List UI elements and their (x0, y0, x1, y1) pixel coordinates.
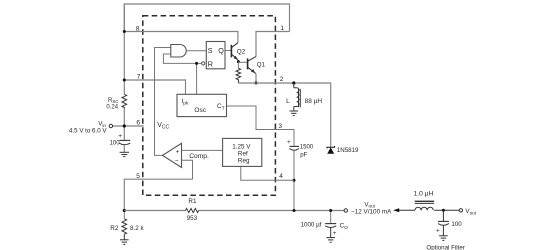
ground under R2 (120, 240, 129, 245)
wire: comparator - input down to pin 5 (182, 160, 193, 179)
wire: pin 5 feedback out to divider (124, 179, 192, 210)
ground under input cap (120, 152, 129, 156)
svg-text:88 µH: 88 µH (305, 98, 323, 105)
wire: Q1 emitter down to pin 2 line (255, 74, 257, 83)
svg-text:R1: R1 (188, 198, 197, 205)
svg-text:1: 1 (280, 25, 284, 32)
svg-text:1N5819: 1N5819 (337, 147, 359, 154)
svg-text:+: + (287, 139, 291, 146)
reference regulator box 1.25V (223, 138, 262, 166)
svg-text:1000 µf: 1000 µf (301, 221, 322, 228)
capacitor 100 uF input (119, 139, 130, 141)
wire: Q2 emitter to Q1 base (238, 61, 247, 63)
capacitor 1500 pF (289, 145, 299, 147)
node: Q2 emitter / Q1 base junction (237, 60, 240, 63)
svg-text:Reg: Reg (238, 157, 250, 164)
wire: oscillator to AND gate lower input and latch R (163, 54, 201, 63)
svg-text:953: 953 (187, 215, 198, 222)
diode 1N5819 (327, 147, 334, 153)
node: pin 4 junction (293, 179, 296, 182)
wire: AND output to latch S (186, 50, 206, 52)
latch R inverter bubble (202, 62, 205, 65)
node: junction pin8/left rail (123, 30, 126, 33)
wire: bottom rail right of R1 to output terminal (199, 210, 344, 212)
svg-text:Q: Q (218, 46, 224, 55)
resistor (Q2 emitter to pin 2) (237, 62, 239, 68)
svg-text:8: 8 (136, 25, 140, 32)
svg-text:+: + (333, 230, 337, 237)
ground under L (290, 111, 299, 116)
svg-text:−: − (175, 158, 179, 165)
svg-text:L: L (286, 98, 290, 105)
latch S-R (206, 42, 225, 69)
svg-text:+: + (176, 149, 180, 155)
svg-text:2: 2 (280, 76, 284, 83)
svg-text:S: S (208, 46, 213, 55)
node: junction pin7/left rail (123, 79, 126, 82)
resistor Rsc (122, 94, 127, 108)
svg-text:+: + (118, 133, 122, 140)
wire: cap down to pin 4 node and ground rail (293, 151, 295, 211)
svg-text:Ref: Ref (238, 150, 248, 157)
wire: pin 8 from left rail into IC to Q2 collector (124, 32, 238, 43)
comparator (163, 143, 182, 167)
wire: filter output arrow pointing to -12V terminal (398, 209, 416, 211)
capacitor CO 1000 uF (330, 212, 332, 224)
svg-text:Q2: Q2 (237, 48, 246, 55)
svg-text:−12 V/100 mA: −12 V/100 mA (351, 209, 392, 216)
svg-text:Q1: Q1 (257, 61, 266, 68)
wire: ref reg to comparator + input (182, 149, 223, 151)
IC boundary dashed box (143, 16, 276, 196)
svg-text:+: + (436, 227, 440, 234)
oscillator box (Ipk / Osc / CT) (177, 94, 227, 116)
transistor Q1 (248, 57, 256, 74)
wire: pin 3 (CT) from osc box out to timing cap (227, 106, 295, 146)
svg-text:4: 4 (279, 173, 283, 180)
wire: comparator output up to AND gate input (155, 48, 171, 156)
AND gate (171, 45, 186, 58)
resistor R2 8.2k (122, 219, 127, 234)
svg-text:3: 3 (278, 123, 282, 130)
ground under CO (326, 238, 335, 243)
svg-text:100: 100 (451, 221, 462, 228)
wire: filter coil to Vout terminal (434, 209, 459, 211)
wire: left rail between Rsc and Vin node, down to input cap (123, 109, 125, 141)
node: -12V output terminal (344, 209, 347, 212)
svg-text:1500: 1500 (300, 145, 314, 151)
svg-text:R: R (208, 59, 213, 68)
svg-text:pF: pF (300, 152, 307, 158)
wire: pin 6 from Vin terminal into IC (113, 125, 144, 127)
svg-text:Comp.: Comp. (189, 153, 209, 160)
node: Vin junction (123, 124, 126, 127)
svg-text:7: 7 (137, 73, 141, 80)
wire: top loop from left rail to pin 1 (124, 4, 289, 32)
inductor L 88 uH (293, 83, 295, 88)
svg-text:100: 100 (110, 141, 121, 147)
svg-text:6: 6 (136, 119, 140, 126)
node: junction pin2/L (292, 81, 295, 84)
wire: bottom rail left of R1 (124, 210, 185, 212)
svg-text:4.5 V to 6.0 V: 4.5 V to 6.0 V (69, 128, 107, 135)
wire: pin 2 line (emitters out to L and diode) (238, 83, 330, 147)
svg-text:0.24: 0.24 (106, 104, 118, 110)
node: Vout terminal (right) (459, 209, 462, 212)
svg-text:R2: R2 (110, 225, 119, 232)
svg-text:1.0 µH: 1.0 µH (414, 190, 434, 197)
ground under filter cap (439, 236, 448, 241)
wire: left input rail (upper part) (123, 4, 125, 94)
capacitor 100 uF filter (442, 210, 444, 221)
wire: pin 4 from ref reg out (241, 166, 294, 180)
wire: pin 7 from left rail into IC to Ipk input (124, 80, 185, 94)
svg-text:8.2 k: 8.2 k (130, 225, 145, 232)
svg-text:5: 5 (136, 173, 140, 180)
transistor Q2 (231, 43, 238, 61)
svg-text:1.25 V: 1.25 V (232, 143, 251, 150)
node: junction pin5/R1/R2 (123, 209, 126, 212)
wire: pin 1 to Q1 collector (256, 32, 290, 57)
svg-text:Osc: Osc (194, 107, 206, 114)
node: Vin input terminal (109, 124, 112, 127)
inductor 1.0 uH (415, 207, 433, 210)
resistor R1 953 (186, 208, 199, 212)
svg-text:RSC: RSC (108, 98, 118, 104)
wire: latch Q to Q2 base (225, 50, 231, 52)
svg-text:Optional Filter: Optional Filter (426, 245, 465, 250)
